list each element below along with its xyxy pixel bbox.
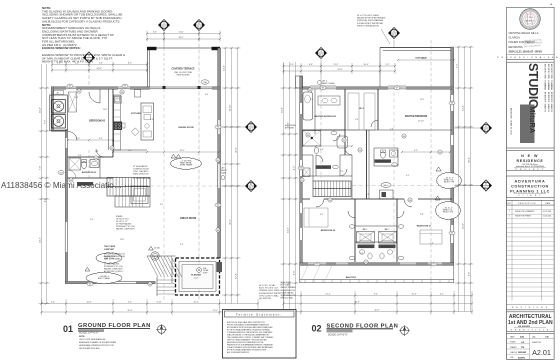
svg-text:W10: W10 xyxy=(315,264,318,266)
left plan: bottom dimension chain xyxy=(42,303,259,305)
svg-text:MASTER BATHROOM: MASTER BATHROOM xyxy=(314,115,336,118)
north arrow 01 xyxy=(158,325,166,333)
svg-text:WDW. TYPE: WDW. TYPE xyxy=(443,212,454,214)
svg-text:4'-0": 4'-0" xyxy=(75,63,79,65)
svg-text:3'-6": 3'-6" xyxy=(294,271,296,276)
svg-text:2'-8": 2'-8" xyxy=(390,129,394,131)
svg-text:W6: W6 xyxy=(322,88,325,90)
svg-text:10'-2": 10'-2" xyxy=(103,109,108,111)
svg-text:107: 107 xyxy=(217,160,220,162)
svg-text:12'-4": 12'-4" xyxy=(236,273,238,279)
svg-text:205: 205 xyxy=(329,200,332,202)
svg-text:202: 202 xyxy=(343,140,346,142)
termite statement box xyxy=(223,310,297,359)
svg-text:BATHROOM #2: BATHROOM #2 xyxy=(381,245,393,248)
svg-text:FOR ARCHITECT'S APPR.: FOR ARCHITECT'S APPR. xyxy=(259,292,281,295)
svg-text:CRISTINA IRAGGI DE LA: CRISTINA IRAGGI DE LA xyxy=(509,31,539,35)
svg-text:1'-0": 1'-0" xyxy=(128,150,132,152)
washer dryer units (left bump-out) xyxy=(50,95,68,131)
svg-text:207: 207 xyxy=(365,262,368,264)
svg-text:EGRESS WINDOW NOTES:: EGRESS WINDOW NOTES: xyxy=(42,46,81,50)
svg-text:20'-4": 20'-4" xyxy=(127,310,132,312)
svg-text:21'-2": 21'-2" xyxy=(325,294,330,296)
svg-text:09.15.2024: 09.15.2024 xyxy=(543,211,552,213)
ground floor: top grid bubbles xyxy=(159,20,170,31)
svg-text:W1: W1 xyxy=(69,86,72,88)
svg-text:ISSUE FOR PERMIT: ISSUE FOR PERMIT xyxy=(515,215,531,217)
svg-text:Termite Statement:: Termite Statement: xyxy=(236,312,283,316)
revisions table xyxy=(507,200,555,309)
grid dashed verticals right plan xyxy=(430,40,432,290)
svg-text:203: 203 xyxy=(359,150,362,152)
carport ramp hatch xyxy=(147,256,158,277)
svg-text:D: D xyxy=(485,183,487,186)
grid dashed extended xyxy=(163,88,165,300)
bedroom closet + bed left plan xyxy=(69,92,77,112)
second floor interior partitions xyxy=(314,89,316,134)
svg-text:21'-0": 21'-0" xyxy=(236,147,238,153)
svg-text:C: C xyxy=(485,125,487,128)
svg-text:CONSTRUCTION: CONSTRUCTION xyxy=(511,184,549,188)
revision clouds right wall xyxy=(436,172,461,188)
svg-text:SCALE: 1/4"=1'-0": SCALE: 1/4"=1'-0" xyxy=(328,334,348,337)
second floor: top dimension lines xyxy=(284,65,396,67)
svg-text:(TYP.) CLOSE TO WALL: (TYP.) CLOSE TO WALL xyxy=(259,294,279,297)
svg-text:2'-0": 2'-0" xyxy=(290,64,294,66)
svg-text:DRAWN: DRAWN xyxy=(510,346,517,349)
svg-text:WDW. TYPE: WDW. TYPE xyxy=(444,182,455,184)
right-side grid bubbles, ground plan xyxy=(246,122,257,133)
svg-text:DEVICE ARE IN PLACE.: DEVICE ARE IN PLACE. xyxy=(79,347,100,350)
svg-text:ELECT. PANEL: ELECT. PANEL xyxy=(98,277,110,280)
svg-text:GREAT ROOM: GREAT ROOM xyxy=(180,217,196,220)
svg-text:W3: W3 xyxy=(217,127,220,129)
svg-text:PLANTER: PLANTER xyxy=(191,274,201,277)
svg-text:W11: W11 xyxy=(432,264,435,266)
svg-text:3'-0": 3'-0" xyxy=(355,119,359,121)
svg-text:5'-6": 5'-6" xyxy=(153,32,157,34)
svg-text:9'-4": 9'-4" xyxy=(374,294,378,296)
svg-text:MAX. SLOPE AWAY: MAX. SLOPE AWAY xyxy=(104,258,121,261)
revision cloud (dining) xyxy=(171,157,202,169)
closets with X xyxy=(357,232,375,244)
svg-text:6'-2": 6'-2" xyxy=(440,294,444,296)
interior dim line bedroom xyxy=(68,139,113,141)
svg-text:3'-1": 3'-1" xyxy=(360,253,364,255)
svg-text:SUPP.: SUPP. xyxy=(203,272,208,274)
svg-text:4'-4": 4'-4" xyxy=(320,149,324,151)
svg-text:STUDIO: STUDIO xyxy=(526,63,540,109)
svg-text:N E W: N E W xyxy=(521,154,539,158)
svg-text:10'-4": 10'-4" xyxy=(282,107,284,113)
grid leader lines xyxy=(163,32,165,49)
svg-text:C L I E N T: C L I E N T xyxy=(518,195,542,197)
svg-text:6'-2": 6'-2" xyxy=(320,214,324,216)
svg-text:+0'-0": +0'-0" xyxy=(194,278,199,280)
svg-text:HEIGHT TO BE MAX. 44" A.F.F. (: HEIGHT TO BE MAX. 44" A.F.F. (TYP) xyxy=(42,60,93,64)
svg-text:PERimeter RAIL: PERimeter RAIL xyxy=(281,297,293,300)
svg-text:15'-6": 15'-6" xyxy=(463,223,465,229)
svg-text:W5: W5 xyxy=(89,284,92,286)
svg-text:2024.11.21 18:05:07 -05'00': 2024.11.21 18:05:07 -05'00' xyxy=(509,50,543,54)
sf corridor walls xyxy=(351,155,353,199)
svg-text:W.I.C.: W.I.C. xyxy=(363,229,368,231)
top dimension lines (terrace) xyxy=(147,33,220,35)
svg-text:14'-4": 14'-4" xyxy=(86,302,91,304)
svg-text:W.I.C.: W.I.C. xyxy=(385,229,390,231)
hall partitions detail xyxy=(339,155,341,176)
left plan: left-side dimension chain xyxy=(41,64,43,304)
svg-text:10'-4": 10'-4" xyxy=(363,64,368,66)
svg-text:2'-4": 2'-4" xyxy=(366,194,370,196)
svg-text:EMERGENCY MEANS OF ESCAPE WHEN: EMERGENCY MEANS OF ESCAPE WHEN xyxy=(79,341,117,344)
svg-text:201: 201 xyxy=(307,135,310,137)
bedroom2 door arc xyxy=(96,149,104,157)
svg-text:AS PER FBC (4) R311.7: AS PER FBC (4) R311.7 xyxy=(104,270,124,273)
svg-text:13'-4": 13'-4" xyxy=(463,105,465,111)
svg-text:LAUNDRY: LAUNDRY xyxy=(81,183,90,186)
svg-text:4'-1": 4'-1" xyxy=(99,138,103,140)
svg-text:W8: W8 xyxy=(451,103,454,105)
svg-text:BATHROOM #3: BATHROOM #3 xyxy=(377,160,389,163)
svg-text:108: 108 xyxy=(217,230,220,232)
second floor exterior walls xyxy=(451,47,454,264)
svg-text:MituRA: MituRA xyxy=(528,107,537,134)
svg-text:P R O F E S S I O N A L S E: P R O F E S S I O N A L S E A L xyxy=(497,56,560,59)
svg-text:7'-0": 7'-0" xyxy=(40,166,42,171)
svg-text:W2: W2 xyxy=(124,86,127,88)
upper-left dimension lines xyxy=(52,64,147,66)
window sill marks top wall xyxy=(310,85,336,87)
svg-text:103: 103 xyxy=(60,172,63,174)
svg-text:01: 01 xyxy=(63,324,73,334)
svg-text:W.I.C.: W.I.C. xyxy=(384,185,389,187)
bottom sheet-number block xyxy=(507,333,555,359)
svg-text:CSI: CSI xyxy=(545,336,549,338)
water heater xyxy=(151,252,159,260)
logo box mitura studio xyxy=(507,62,555,148)
svg-text:28'-4": 28'-4" xyxy=(354,302,359,304)
project box: new residence xyxy=(507,150,555,170)
svg-text:13'-2": 13'-2" xyxy=(179,150,184,152)
second floor: left-side dimension chain xyxy=(283,62,285,312)
svg-text:SCALE: 1/4"=1'-0": SCALE: 1/4"=1'-0" xyxy=(79,332,99,335)
svg-text:3'-2": 3'-2" xyxy=(75,97,79,99)
svg-text:ONLY DOOR DESIGNATED AT: ONLY DOOR DESIGNATED AT xyxy=(79,338,106,341)
balcony xyxy=(300,265,454,283)
svg-text:24'-8": 24'-8" xyxy=(337,69,342,71)
svg-text:W4: W4 xyxy=(217,205,220,207)
svg-text:TWO CARS: TWO CARS xyxy=(104,245,116,248)
professional seal xyxy=(520,9,541,30)
svg-text:11'-8": 11'-8" xyxy=(120,239,125,241)
svg-text:1st AND 2nd PLAN: 1st AND 2nd PLAN xyxy=(508,320,553,326)
general notes text block xyxy=(42,6,125,64)
svg-text:HURRICANE OPENINGS PROTECTION: HURRICANE OPENINGS PROTECTION xyxy=(79,344,114,347)
svg-text:NO.: NO. xyxy=(508,203,512,205)
client box: adventura xyxy=(507,176,555,198)
svg-text:42'-6": 42'-6" xyxy=(374,310,379,312)
svg-text:109: 109 xyxy=(111,148,114,150)
svg-text:14'-6": 14'-6" xyxy=(96,68,101,70)
svg-text:16'-4": 16'-4" xyxy=(40,107,42,113)
svg-text:P R O J E C T: P R O J E C T xyxy=(516,169,545,171)
svg-text:GLASS: GLASS xyxy=(221,171,228,174)
door/window tags right plan xyxy=(306,133,310,137)
svg-text:SCALE: SCALE xyxy=(510,341,516,344)
svg-text:6'-1": 6'-1" xyxy=(160,204,164,206)
svg-text:208: 208 xyxy=(309,90,312,92)
svg-text:12'-2": 12'-2" xyxy=(420,99,425,101)
svg-text:CARPORT: CARPORT xyxy=(104,248,115,251)
svg-text:FOR ARCHITECT'S APPROVAL: FOR ARCHITECT'S APPROVAL xyxy=(357,22,383,25)
svg-text:D E S C R I P T I O N: D E S C R I P T I O N xyxy=(518,203,536,205)
terrace inner verticals (columns) xyxy=(163,48,165,88)
svg-text:(PERGOLA). SHOP DRAWINGS: (PERGOLA). SHOP DRAWINGS xyxy=(357,19,384,22)
svg-text:DATE: DATE xyxy=(545,202,550,205)
svg-text:206: 206 xyxy=(409,200,412,202)
svg-text:7'-0": 7'-0" xyxy=(340,171,344,173)
svg-text:204: 204 xyxy=(403,136,406,138)
second floor: bottom dimension chain xyxy=(284,295,473,297)
svg-text:RESIDENCE: RESIDENCE xyxy=(517,159,544,163)
svg-text:DINING ROOM: DINING ROOM xyxy=(178,127,193,129)
svg-text:17'-0": 17'-0" xyxy=(212,310,217,312)
svg-text:SHEET NO.: SHEET NO. xyxy=(532,342,542,344)
svg-text:KITCHEN: KITCHEN xyxy=(131,113,141,115)
svg-text:7'-2": 7'-2" xyxy=(457,64,459,69)
interior dim right plan xyxy=(302,145,352,147)
svg-text:102: 102 xyxy=(95,158,98,160)
title block outer border xyxy=(507,7,555,359)
svg-text:11'-6": 11'-6" xyxy=(179,32,184,34)
svg-text:36" H. TOP & BOT. GLASS: 36" H. TOP & BOT. GLASS xyxy=(357,14,380,17)
svg-text:BEDROOM #2: BEDROOM #2 xyxy=(321,230,336,232)
svg-text:12'-4": 12'-4" xyxy=(193,302,198,304)
svg-text:ADWN: ADWN xyxy=(518,356,525,359)
ground floor exterior walls xyxy=(218,48,221,258)
left plan: right-side dimension chain xyxy=(225,48,227,304)
door/window tag markers left plan xyxy=(77,89,81,93)
svg-text:ADVENTURA: ADVENTURA xyxy=(514,179,545,183)
svg-text:PRIOR TO INSTALLATION.: PRIOR TO INSTALLATION. xyxy=(357,24,380,27)
sun deck outline xyxy=(380,47,451,49)
bathroom 2 fixtures xyxy=(81,161,86,168)
bathrooms 1 and 2 labels xyxy=(358,245,375,249)
svg-text:AS SHOWN: AS SHOWN xyxy=(518,325,530,328)
svg-text:106: 106 xyxy=(149,284,152,286)
svg-text:ARCHITECTURE · PLANNING · INTE: ARCHITECTURE · PLANNING · INTERIORS · MI… xyxy=(544,64,547,112)
svg-text:SAFETY GLASS: SAFETY GLASS xyxy=(322,82,336,85)
kitchen fridge + range xyxy=(135,90,141,98)
svg-text:14'-2": 14'-2" xyxy=(288,227,290,233)
svg-text:ARCHITECTURE · PLANNING · INTE: ARCHITECTURE · PLANNING · INTERIORS · MI… xyxy=(550,64,553,112)
svg-text:101: 101 xyxy=(78,91,81,93)
svg-text:LAUNDRY: LAUNDRY xyxy=(319,166,328,169)
svg-text:(50) SUPPORT: (50) SUPPORT xyxy=(259,298,272,300)
svg-text:5'-8": 5'-8" xyxy=(420,214,424,216)
svg-text:18'-0": 18'-0" xyxy=(178,37,183,39)
second floor: top grid bubbles xyxy=(316,48,327,59)
svg-text:14'-2": 14'-2" xyxy=(40,237,42,243)
svg-text:17'-10": 17'-10" xyxy=(418,121,424,123)
svg-text:COVERED TERRACE: COVERED TERRACE xyxy=(171,68,195,71)
svg-text:BATHROOM #2: BATHROOM #2 xyxy=(82,171,97,174)
svg-text:7'-2": 7'-2" xyxy=(45,120,47,125)
svg-text:2'-0": 2'-0" xyxy=(51,302,55,304)
svg-text:105: 105 xyxy=(70,180,73,182)
svg-text:40" H. 36" L 50 GAL: 40" H. 36" L 50 GAL xyxy=(259,284,275,287)
svg-text:W.I.C.: W.I.C. xyxy=(359,108,365,110)
right-side grid bubbles, second plan xyxy=(481,123,492,134)
svg-text:4'-0": 4'-0" xyxy=(45,198,47,203)
staircase second floor xyxy=(313,181,351,197)
svg-text:50 GAL: 50 GAL xyxy=(154,247,160,250)
svg-text:5'-2": 5'-2" xyxy=(386,64,390,66)
svg-text:TM: TM xyxy=(521,347,524,349)
svg-text:209: 209 xyxy=(439,152,442,154)
svg-text:REVISIONS: REVISIONS xyxy=(509,45,523,49)
svg-text:12'-4": 12'-4" xyxy=(411,294,416,296)
svg-text:S H E E T T I T L E: S H E E T T I T L E xyxy=(511,330,550,332)
svg-text:3'-4": 3'-4" xyxy=(180,244,184,246)
svg-text:W7: W7 xyxy=(396,88,399,90)
sheet title box xyxy=(507,312,555,332)
revision cloud (elect panel) xyxy=(96,252,122,263)
svg-text:4'-2": 4'-2" xyxy=(294,166,296,171)
svg-text:GLARCIA: GLARCIA xyxy=(509,36,521,40)
svg-text:AT 4 BURN.: AT 4 BURN. xyxy=(285,126,295,129)
svg-text:D: D xyxy=(250,183,252,186)
svg-text:BEDROOM #2: BEDROOM #2 xyxy=(89,120,105,123)
svg-text:9'-0": 9'-0" xyxy=(90,219,94,221)
svg-text:4'-0": 4'-0" xyxy=(205,94,209,96)
svg-text:OS: OS xyxy=(521,342,525,344)
terrace end wall black segments xyxy=(147,47,157,50)
svg-text:104: 104 xyxy=(121,92,124,94)
svg-text:32'-4": 32'-4" xyxy=(469,157,471,163)
dashed grid line thru plan xyxy=(88,150,90,178)
svg-text:REPAIR: REPAIR xyxy=(518,351,527,354)
svg-text:RISER FRAME: RISER FRAME xyxy=(180,164,193,167)
svg-text:BOT. GLASS: BOT. GLASS xyxy=(281,284,292,287)
svg-text:CHECKD: CHECKD xyxy=(510,352,518,354)
svg-text:8'-8": 8'-8" xyxy=(309,64,313,66)
bedroom1 furniture xyxy=(420,230,442,244)
svg-text:2: 2 xyxy=(509,215,510,217)
svg-text:BATHROOM #1: BATHROOM #1 xyxy=(360,245,372,248)
svg-text:5'-8": 5'-8" xyxy=(99,63,103,65)
second floor: right-side dimension chain xyxy=(458,47,460,312)
svg-text:11'-2": 11'-2" xyxy=(334,64,339,66)
svg-text:4'-2": 4'-2" xyxy=(406,175,410,177)
svg-text:PLANNING 1 LLC: PLANNING 1 LLC xyxy=(510,189,550,193)
svg-text:BALCONY: BALCONY xyxy=(346,276,357,279)
svg-text:02: 02 xyxy=(312,324,322,334)
covered terrace outline xyxy=(148,48,220,88)
svg-text:5'-1": 5'-1" xyxy=(310,99,314,101)
svg-text:4'-11": 4'-11" xyxy=(157,302,162,304)
svg-text:W12: W12 xyxy=(299,168,302,170)
svg-text:W9: W9 xyxy=(451,233,454,235)
svg-text:8'-4": 8'-4" xyxy=(150,119,154,121)
staircase ground floor xyxy=(107,178,150,197)
svg-text:ISSUE FOR COMMENTS: ISSUE FOR COMMENTS xyxy=(515,211,535,213)
ground floor interior partitions xyxy=(112,89,114,157)
svg-text:2'-0": 2'-0" xyxy=(57,63,61,65)
svg-text:NOTE:: NOTE: xyxy=(79,336,85,338)
svg-text:36" HIGH GLASS RAIL: 36" HIGH GLASS RAIL xyxy=(133,177,151,180)
svg-text:5'-0": 5'-0" xyxy=(78,155,82,157)
svg-text:IN ANY DIRECTION: IN ANY DIRECTION xyxy=(133,173,149,176)
svg-text:210: 210 xyxy=(301,180,304,182)
svg-text:3'-6": 3'-6" xyxy=(469,272,471,277)
north arrow 02 xyxy=(401,327,409,335)
svg-text:11.20.2024: 11.20.2024 xyxy=(543,215,551,217)
door arcs second floor xyxy=(333,134,340,141)
svg-text:9'-2": 9'-2" xyxy=(414,150,418,152)
svg-text:8'-2": 8'-2" xyxy=(128,63,132,65)
svg-text:HIGH SLOPED: HIGH SLOPED xyxy=(177,75,191,77)
svg-text:RAILING COMPLYING: RAILING COMPLYING xyxy=(116,228,135,231)
svg-text:1: 1 xyxy=(509,211,510,213)
svg-text:RAILING TERRACE: RAILING TERRACE xyxy=(281,286,297,289)
svg-text:(AHJ8.61(23)) FOR CATEGORY II: (AHJ8.61(23)) FOR CATEGORY II GLAZING PR… xyxy=(42,19,121,23)
svg-text:18'-2": 18'-2" xyxy=(421,58,426,60)
svg-text:C: C xyxy=(250,124,252,127)
svg-text:R E V I S I O N S: R E V I S I O N S xyxy=(512,307,548,309)
svg-text:ARCHITECTURE · PLANNING · INTE: ARCHITECTURE · PLANNING · INTERIORS · MI… xyxy=(547,64,550,112)
svg-text:31'-2": 31'-2" xyxy=(230,219,232,225)
svg-text:AA26003957 · MIAMI, FL 33131: AA26003957 · MIAMI, FL 33131 xyxy=(510,108,513,135)
planter (dashed) xyxy=(176,258,220,295)
mid horizontal wall xyxy=(302,198,452,200)
svg-text:2'-6": 2'-6" xyxy=(95,151,99,153)
svg-text:13'-4": 13'-4" xyxy=(224,65,226,71)
svg-text:12'-10": 12'-10" xyxy=(230,104,232,111)
svg-text:MASTER BEDROOM: MASTER BEDROOM xyxy=(405,115,427,118)
svg-text:RAILING AT THE OPEN TERRACE: RAILING AT THE OPEN TERRACE xyxy=(357,17,386,20)
svg-text:A2.01: A2.01 xyxy=(532,348,551,357)
svg-text:BEDROOM #1: BEDROOM #1 xyxy=(417,226,432,228)
svg-text:9'-2": 9'-2" xyxy=(128,302,132,304)
svg-text:GLASS RAILING: GLASS RAILING xyxy=(281,291,295,294)
